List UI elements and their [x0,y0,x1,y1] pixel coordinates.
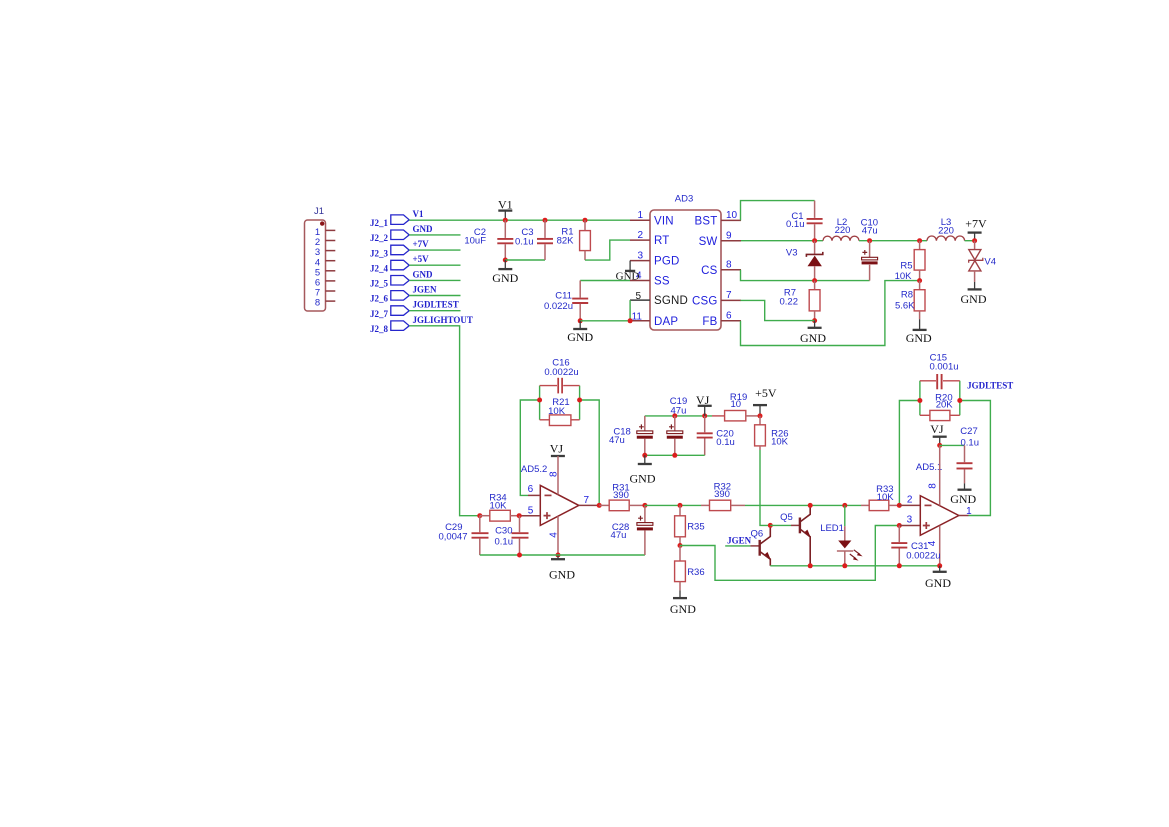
ground below R36 [670,590,696,616]
svg-text:6: 6 [726,311,732,322]
svg-text:0.0022u: 0.0022u [544,367,578,378]
wire C15 loop verticals [920,381,960,416]
svg-text:390: 390 [613,490,629,501]
svg-text:7: 7 [726,290,732,301]
svg-text:GND: GND [800,331,826,345]
svg-text:C27: C27 [960,426,977,437]
resistor R21 [540,397,580,426]
svg-text:0.022u: 0.022u [544,301,573,312]
net flag J2_4 [370,260,409,273]
pin 1 output stub [959,515,969,517]
pin names right [692,216,718,328]
svg-text:J1: J1 [314,206,324,217]
svg-text:J2_5: J2_5 [370,279,389,289]
svg-text:0.1u: 0.1u [716,437,735,448]
svg-text:CS: CS [701,265,718,277]
junction R5/R8/FB [917,278,922,283]
svg-text:AD5.1: AD5.1 [916,462,942,473]
svg-text:GND: GND [950,492,976,506]
svg-text:J2_8: J2_8 [370,324,389,334]
resistor R8 [895,281,925,320]
svg-text:82K: 82K [557,236,575,247]
svg-text:6: 6 [528,484,534,495]
pin 2 RT stub [630,239,650,241]
capacitor C27 [957,426,980,484]
ground below AD5.1 [925,566,951,590]
net flag J2_2 [370,230,409,243]
svg-text:J2_1: J2_1 [370,218,389,228]
capacitor C18 electrolytic [609,416,653,455]
svg-text:GND: GND [492,271,518,285]
svg-text:10K: 10K [490,500,508,511]
ground below V4 [961,282,987,306]
svg-text:5.6K: 5.6K [895,301,915,312]
svg-text:Q5: Q5 [780,512,793,523]
junction C2 bottom [503,258,508,263]
wire L2 to L3 [859,240,927,242]
svg-text:0,0047: 0,0047 [438,531,467,542]
net flag J2_3 [370,245,409,258]
svg-text:+5V: +5V [413,254,430,264]
svg-text:5: 5 [635,291,641,302]
J1 pin numbers 1-8 [315,227,320,309]
junction C3 top [543,218,548,223]
svg-text:2: 2 [637,230,643,241]
svg-text:J2_6: J2_6 [370,294,389,304]
wire analog ground rail [480,554,645,556]
junction V1/C2 [503,218,508,223]
connector J1 [305,206,326,311]
junction VJ/C27 [937,443,942,448]
junction DAP node [628,318,633,323]
junction C31 bottom [897,563,902,568]
svg-text:220: 220 [835,225,851,236]
inductor L3 [927,217,965,241]
svg-text:V1: V1 [413,209,424,219]
wire C2-C3 bottom [505,259,545,261]
ground at pin 3 PGD [616,261,640,283]
junction SW/C1/V3 [812,238,817,243]
svg-text:+7V: +7V [413,239,430,249]
capacitor C11 [544,281,588,321]
svg-text:VIN: VIN [654,215,674,227]
resistor R7 [780,281,821,321]
pin 7 output stub [579,504,599,506]
wire J2_2 GND stub [409,234,460,236]
junction Q6 collector / R26 [768,523,773,528]
svg-text:AD5.2: AD5.2 [521,464,547,475]
pin 7 CSG stub [721,299,741,301]
wire output rail mid [645,504,701,506]
junction R5 top [917,238,922,243]
junction C15/R20 right [957,398,962,403]
capacitor C20 [697,416,735,455]
svg-text:0.1u: 0.1u [495,537,514,548]
transistor Q6 [750,525,770,565]
svg-text:R36: R36 [687,567,704,578]
junction pin4/GND rail [556,553,561,558]
svg-text:+7V: +7V [965,217,987,231]
svg-text:10: 10 [731,399,742,410]
svg-text:0.0022u: 0.0022u [906,550,940,561]
pin 5 stub [519,515,540,517]
svg-text:10K: 10K [877,492,895,503]
wire R26 to Q5 base node [760,450,770,525]
junction R34/C29 [477,513,482,518]
junction AD5.2 output [597,503,602,508]
junction R34 right / pin5 [517,513,522,518]
svg-text:10K: 10K [548,406,566,417]
wire L3 to +7V node [965,240,975,242]
net flag J2_1 [370,215,409,228]
svg-text:GND: GND [906,331,932,345]
svg-text:4: 4 [548,532,559,538]
svg-text:7: 7 [584,495,590,506]
svg-text:GND: GND [567,330,593,344]
capacitor C3 [515,220,553,260]
pin 8 CS stub [721,269,741,271]
svg-text:47u: 47u [609,435,625,446]
resistor R26 [755,416,789,450]
svg-text:C30: C30 [495,526,512,537]
wire R35/R36 node to pin3 AD5.1 [680,526,899,581]
pin 1 VIN stub [630,219,650,221]
junction V3 bottom [812,278,817,283]
op-amp AD5.2 [521,464,579,525]
junction C30 bottom [517,553,522,558]
svg-text:8: 8 [726,260,732,271]
TVS diode V4 [969,241,996,282]
inductor L2 [823,217,859,241]
junction C15/R20 left [917,398,922,403]
svg-text:SGND: SGND [654,295,688,307]
power +5V [753,386,777,416]
ground below AD5.2 [549,555,575,582]
svg-text:3: 3 [907,515,913,526]
pin numbers left [632,210,644,322]
junction C19 top [672,413,677,418]
wire VJ bypass rail [645,415,712,417]
svg-text:J2_2: J2_2 [370,233,389,243]
svg-text:CSG: CSG [692,296,718,308]
svg-text:V4: V4 [984,257,996,268]
pin 10 BST stub [721,219,741,221]
wire BST to C1 top [741,201,815,221]
pin 6 FB stub [721,320,741,322]
resistor R36 [675,546,705,591]
net flag J2_8 [370,321,409,334]
svg-text:10uF: 10uF [464,236,486,247]
wire CSG to R7 bottom [741,300,815,320]
svg-text:47u: 47u [862,225,878,236]
wire Q6 collector to Q5 base [770,524,791,526]
svg-text:AD3: AD3 [675,194,693,205]
svg-text:10K: 10K [895,271,913,282]
junction pin3 node [897,523,902,528]
svg-text:0.1u: 0.1u [515,236,534,247]
resistor R32 [701,482,745,511]
power VJ mid [696,393,712,416]
resistor R20 [920,392,960,420]
svg-text:RT: RT [654,235,670,247]
pin 6 stub [528,494,540,496]
wire C15/R20 right to output [960,401,991,516]
pin 3 PGD stub [630,260,650,262]
pin 5 SGND stub [630,299,650,301]
wire J2_7 JGDLTEST stub [409,310,460,312]
svg-text:GND: GND [413,269,434,279]
wire C10 bottom lead [869,265,871,281]
ground below C18 [630,455,656,485]
svg-text:JGDLTEST: JGDLTEST [413,300,459,310]
wire emitter ground rail [770,565,939,567]
wire JGEN to Q6 base [725,545,750,547]
ground below C27 [950,483,976,506]
svg-text:R35: R35 [687,522,704,533]
resistor R33 [861,484,899,511]
svg-text:DAP: DAP [654,316,678,328]
svg-text:JGEN: JGEN [413,285,438,295]
svg-text:GND: GND [925,576,951,590]
svg-text:SS: SS [654,276,670,288]
svg-text:BST: BST [695,216,718,228]
svg-text:47u: 47u [671,405,687,416]
junction +5V/R19/R26 [758,413,763,418]
svg-text:GND: GND [961,292,987,306]
capacitor C16 [540,357,580,393]
wire J2_3 +7V stub [409,249,460,251]
svg-text:GND: GND [549,568,575,582]
svg-text:390: 390 [714,489,730,500]
wire C16/R21 left to pin6 [520,400,539,495]
svg-text:GND: GND [413,224,434,234]
svg-text:0.001u: 0.001u [929,361,958,372]
net flag J2_6 [370,291,409,304]
svg-text:10K: 10K [771,437,789,448]
svg-text:SW: SW [699,236,718,248]
wire V1 rail [409,219,630,221]
svg-text:0.22: 0.22 [780,296,799,307]
pin 9 SW stub [721,240,741,242]
svg-text:V3: V3 [786,247,798,258]
svg-text:VJ: VJ [930,422,944,436]
resistor R5 [895,241,925,282]
zener diode V3 [786,241,823,281]
pin 4 lead [557,516,559,555]
wire C15/R20 left to pin2 [899,401,920,506]
junction C16/R21 right [577,398,582,403]
wire C11 to DAP [580,320,630,322]
pin 3 stub [899,525,920,527]
svg-text:11: 11 [632,311,643,322]
svg-text:GND: GND [630,472,656,486]
svg-text:J2_7: J2_7 [370,309,389,319]
svg-text:J2_4: J2_4 [370,263,389,273]
wire C16 loop verticals [540,386,580,420]
resistor R19 [712,392,760,421]
junction R1 top [583,218,588,223]
svg-text:3: 3 [637,250,643,261]
ground below R8 [906,319,932,345]
junction R35 top [678,503,683,508]
junction Q5 collector [808,503,813,508]
svg-text:PGD: PGD [654,256,680,268]
svg-text:2: 2 [907,494,913,505]
junction LED1 bottom [842,563,847,568]
pin 4 SS stub [630,280,650,282]
svg-text:1: 1 [637,210,643,221]
svg-text:V1: V1 [498,198,513,212]
capacitor C29 [438,516,488,555]
svg-text:9: 9 [726,231,732,242]
power VJ above AD5.2 [550,442,565,456]
op-amp AD5.1 [916,462,959,535]
power VJ above AD5.1 [930,422,946,445]
capacitor C28 electrolytic [611,505,653,555]
wire JGLIGHTOUT J2_8 to R34 [409,326,480,516]
svg-text:JGEN: JGEN [727,535,752,545]
wire R32 to LED rail [745,504,861,506]
junction C18 bottom [642,453,647,458]
transistor Q5 [780,505,811,565]
svg-text:GND: GND [670,602,696,616]
power V1 [498,198,513,221]
junction VJ/C20 [702,413,707,418]
svg-text:8: 8 [927,483,938,489]
resistor R34 [480,493,519,521]
wire CS line [741,270,870,281]
wire J2_4 +5V stub [409,264,460,266]
net flag J2_5 [370,276,409,289]
resistor R31 [599,483,645,511]
svg-text:Q6: Q6 [751,528,764,539]
svg-text:R8: R8 [901,290,913,301]
svg-text:LED1: LED1 [820,523,844,534]
wire J2_5 GND stub [409,279,460,281]
svg-text:8: 8 [315,298,320,309]
svg-text:0.1u: 0.1u [786,219,805,230]
pin 4 lead [939,526,941,566]
resistor R35 [675,505,705,545]
pin 11 DAP stub [630,320,650,322]
capacitor C30 [495,516,529,555]
capacitor C19 electrolytic [667,396,687,455]
junction Q5 emitter [808,563,813,568]
junction C10 top [867,238,872,243]
junction pin2 node [897,503,902,508]
junction R35/R36 [678,543,683,548]
wire SS to C11 top [580,280,630,282]
resistor R1 [557,220,591,260]
net flag J2_7 [370,306,409,319]
junction LED1 top [842,503,847,508]
wire SW rail [741,240,823,242]
ground below C11 [567,321,593,344]
J1 pin stubs [326,230,336,301]
svg-text:+5V: +5V [755,386,777,400]
svg-text:8: 8 [549,471,560,477]
junction C16/R21 left [537,398,542,403]
pin 8 supply lead [557,456,559,495]
svg-text:FB: FB [702,316,717,328]
ground below R7 [800,321,826,346]
LED LED1 [820,505,862,565]
svg-text:10: 10 [726,210,738,221]
junction +7V/V4 [972,238,977,243]
capacitor C10 electrolytic [861,218,878,265]
junction C19 bottom [672,453,677,458]
wire R1 to RT [585,240,630,260]
capacitor C1 [786,201,823,241]
pin 8 supply lead [939,445,941,505]
junction R31/C28 [642,503,647,508]
pin 2 stub [899,504,920,506]
svg-text:VJ: VJ [550,442,564,456]
wire VJ to C27 [940,444,965,446]
svg-text:0.1u: 0.1u [961,437,980,448]
wire bypass ground rail [645,454,705,456]
junction pin4 ground [937,563,942,568]
ground below C2 [492,260,518,285]
svg-text:20K: 20K [936,399,954,410]
pin names left [654,215,688,328]
power +7V [965,217,987,241]
svg-text:JGLIGHTOUT: JGLIGHTOUT [413,315,473,325]
svg-text:JGDLTEST: JGDLTEST [967,381,1013,391]
svg-text:1: 1 [966,506,972,517]
capacitor C15 [920,353,960,390]
svg-text:C11: C11 [555,290,572,301]
pin numbers right [726,210,738,321]
wire C16/R21 right to output [580,400,600,505]
svg-text:J2_3: J2_3 [370,248,389,258]
svg-text:220: 220 [938,226,954,237]
junction R7 bottom [812,318,817,323]
wire J2_6 JGEN stub [409,295,460,297]
capacitor C2 [464,220,513,260]
capacitor C31 [891,526,940,566]
svg-text:5: 5 [528,506,534,517]
svg-text:47u: 47u [611,530,627,541]
svg-text:4: 4 [927,540,938,546]
junction C11 bottom [578,318,583,323]
wire FB to divider [741,281,920,346]
IC U-AD3 body [650,210,721,330]
wire SGND down to DAP node [629,300,631,321]
